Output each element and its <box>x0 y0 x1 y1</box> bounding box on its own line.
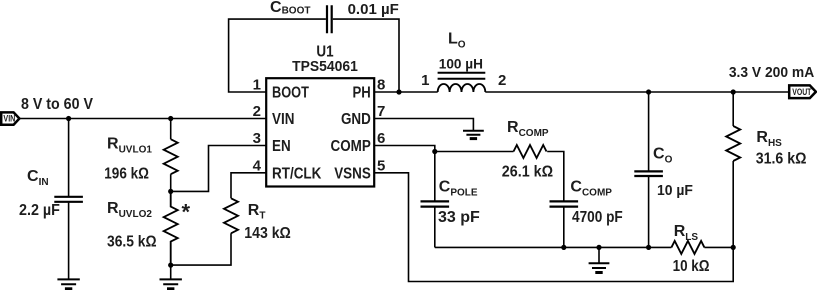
svg-text:2: 2 <box>498 72 506 89</box>
svg-text:196 kΩ: 196 kΩ <box>104 165 149 182</box>
resistor RUVLO1 <box>164 139 178 174</box>
node CCOMP rail junction <box>561 245 566 250</box>
svg-text:PH: PH <box>353 84 371 101</box>
wire CPOLE top lead <box>434 152 436 202</box>
resistor RHS <box>726 126 740 161</box>
svg-text:3: 3 <box>253 130 261 147</box>
resistor RCOMP <box>514 145 547 158</box>
node output / CO junction <box>646 89 651 94</box>
svg-text:VIN: VIN <box>3 114 15 124</box>
terminal VOUT <box>789 85 816 98</box>
svg-text:EN: EN <box>272 138 291 155</box>
capacitor CCOMP <box>550 201 579 206</box>
wire RHS top lead <box>732 92 734 126</box>
ground under CIN <box>57 279 79 284</box>
svg-text:1: 1 <box>253 77 261 94</box>
wire CCOMP bottom lead <box>563 207 565 247</box>
svg-text:100 µH: 100 µH <box>439 55 483 71</box>
wire RT bottom to junction <box>171 233 231 265</box>
svg-text:COMP: COMP <box>330 138 370 155</box>
wire CO top lead <box>648 92 650 171</box>
wire RHS bottom lead <box>732 161 734 247</box>
wire RUVLO1 bottom lead <box>170 174 172 191</box>
wire RUVLO1 top lead <box>170 119 172 140</box>
wire CO bottom lead <box>648 177 650 248</box>
ground at GND pin <box>463 131 484 135</box>
svg-text:2.2 µF: 2.2 µF <box>19 201 60 219</box>
svg-text:3.3 V 200 mA: 3.3 V 200 mA <box>729 65 815 82</box>
node VIN / CIN junction <box>66 116 71 121</box>
svg-text:8: 8 <box>377 77 385 94</box>
wire CPOLE bottom lead <box>434 207 436 247</box>
node ground rail junction <box>596 245 601 250</box>
node VIN / RUVLO1 junction <box>168 116 173 121</box>
svg-text:36.5 kΩ: 36.5 kΩ <box>107 233 157 251</box>
wire BOOT to CBOOT <box>229 19 326 92</box>
wire RT/CLK to RT <box>231 173 266 199</box>
wire RLS to FB node <box>704 246 733 248</box>
op-amp U1 IC box TPS54061 <box>266 78 374 186</box>
svg-text:1: 1 <box>421 72 429 89</box>
wire junction to ground <box>170 265 172 279</box>
svg-text:10 µF: 10 µF <box>657 183 693 200</box>
svg-text:4: 4 <box>253 157 262 174</box>
ground at comp rail <box>589 263 610 268</box>
node CO rail junction <box>646 245 651 250</box>
inductor LO <box>438 84 486 92</box>
svg-text:BOOT: BOOT <box>272 84 309 102</box>
wire VSNS feedback line <box>374 173 733 282</box>
wire comp node to RCOMP <box>435 151 514 153</box>
capacitor CIN <box>54 197 83 202</box>
svg-text:143 kΩ: 143 kΩ <box>244 224 291 242</box>
wire rail ground stub <box>598 247 600 262</box>
node output / RHS junction <box>731 89 736 94</box>
svg-text:*: * <box>182 200 191 225</box>
svg-text:GND: GND <box>341 111 371 128</box>
svg-text:RT/CLK: RT/CLK <box>272 165 322 182</box>
wire CIN top lead <box>68 119 70 197</box>
node COMP junction <box>432 149 437 154</box>
capacitor CPOLE <box>421 201 450 206</box>
svg-text:26.1 kΩ: 26.1 kΩ <box>502 163 553 181</box>
svg-text:33 pF: 33 pF <box>438 209 480 226</box>
svg-text:8 V to 60 V: 8 V to 60 V <box>21 95 93 113</box>
svg-text:7: 7 <box>377 103 385 120</box>
svg-text:TPS54061: TPS54061 <box>292 59 358 76</box>
wire output line <box>485 91 789 93</box>
svg-text:5: 5 <box>377 157 385 174</box>
wire COMP pin to comp node <box>374 146 435 152</box>
capacitor CO <box>634 171 663 176</box>
resistor RT <box>224 198 238 233</box>
svg-text:31.6 kΩ: 31.6 kΩ <box>756 150 807 168</box>
wire CIN bottom lead <box>68 203 70 279</box>
svg-text:10 kΩ: 10 kΩ <box>673 258 710 275</box>
svg-text:0.01 µF: 0.01 µF <box>348 1 399 18</box>
svg-text:VIN: VIN <box>272 111 294 128</box>
node RUVLO2 / RT ground junction <box>168 263 173 268</box>
resistor RUVLO2 <box>164 191 178 265</box>
node FB junction <box>731 245 736 250</box>
svg-text:2: 2 <box>253 103 261 120</box>
terminal VIN <box>1 112 19 124</box>
wire GND pin to ground <box>374 119 473 131</box>
node EN divider junction <box>168 189 173 194</box>
ground under divider <box>160 279 182 284</box>
wire ground rail <box>435 246 672 248</box>
resistor RLS <box>671 241 704 254</box>
svg-text:6: 6 <box>377 130 385 147</box>
node PH / CBOOT junction <box>396 89 401 94</box>
svg-text:4700 pF: 4700 pF <box>572 209 623 226</box>
capacitor CBOOT <box>327 5 332 33</box>
wire EN to divider <box>171 146 267 192</box>
wire RCOMP to CCOMP <box>547 152 564 202</box>
wire VIN input line to pin 2 <box>19 118 266 120</box>
svg-text:VSNS: VSNS <box>334 165 371 182</box>
wire PH to inductor <box>374 91 438 93</box>
svg-text:VOUT: VOUT <box>792 87 811 97</box>
wire CBOOT to PH node <box>333 19 399 92</box>
